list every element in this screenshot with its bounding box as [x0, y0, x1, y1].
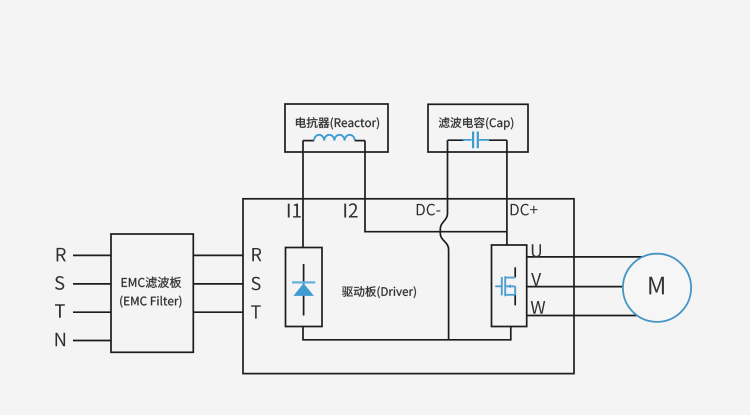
label W — [531, 301, 545, 314]
wire I1 vertical — [302, 141, 304, 248]
wire R input — [73, 254, 111, 256]
EMC filter box — [111, 234, 193, 352]
wire T input — [73, 311, 111, 313]
wire V output — [527, 286, 652, 288]
terminal R — [57, 248, 66, 262]
driver terminal T — [251, 305, 261, 318]
label V — [531, 273, 541, 286]
wire reactor right lead — [355, 140, 365, 142]
wire R to driver — [193, 254, 243, 256]
wire cap left lead — [448, 139, 465, 141]
label DC+ — [511, 204, 538, 216]
terminal N — [56, 333, 66, 347]
wire W output — [527, 315, 652, 317]
rectifier box — [286, 248, 323, 327]
IGBT box — [492, 245, 527, 327]
label reactor — [296, 117, 379, 129]
wire DC+ vertical — [506, 140, 508, 245]
filter capacitor box — [428, 104, 528, 152]
label filter capacitor — [439, 117, 513, 130]
wire reactor left lead — [303, 140, 314, 142]
label I1 — [288, 204, 301, 218]
capacitor C1 leads — [463, 139, 490, 141]
motor M circle — [623, 254, 691, 322]
terminal T — [55, 304, 65, 318]
terminal S — [55, 276, 64, 290]
driver board box — [243, 199, 574, 374]
label I2 — [344, 203, 357, 217]
diode D1 wire — [303, 264, 305, 316]
wire S to driver — [193, 283, 243, 285]
label EMC filter line1 — [122, 277, 181, 288]
capacitor C1 plates — [473, 132, 478, 149]
inductor coil — [314, 135, 355, 141]
IGBT Q1 source lead — [514, 295, 516, 306]
wire DC- with hop — [440, 140, 448, 340]
label driver board — [342, 286, 416, 298]
label EMC filter line2 — [120, 296, 181, 308]
driver terminal R — [252, 248, 261, 261]
wire cap right lead — [489, 139, 507, 141]
wire N input — [73, 340, 111, 342]
wire T to driver — [193, 311, 243, 313]
wire bottom bus — [303, 327, 511, 340]
reactor box — [285, 104, 388, 152]
wire I2 to DC+ node — [365, 141, 507, 232]
motor M label — [649, 277, 664, 295]
label U — [532, 244, 541, 257]
wire S input — [73, 283, 111, 285]
label DC- — [417, 204, 441, 216]
IGBT Q1 body arrow — [507, 284, 511, 288]
IGBT Q1 symbol — [495, 276, 515, 296]
diode D1 cathode bar — [292, 281, 315, 283]
diode D1 anode triangle — [293, 283, 314, 296]
driver terminal S — [251, 277, 260, 291]
IGBT Q1 drain lead — [514, 267, 516, 277]
wire U output — [527, 256, 652, 258]
